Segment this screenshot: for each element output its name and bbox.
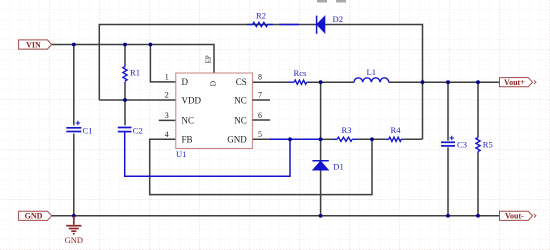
svg-text:NC: NC [234,95,247,105]
svg-text:3: 3 [165,111,169,120]
junction J14 [446,214,450,218]
svg-text:D: D [208,80,217,86]
junction J10 [319,137,323,141]
svg-text:R4: R4 [391,125,402,135]
svg-text:D2: D2 [333,14,344,24]
resistor R3 [333,125,358,142]
svg-text:GND: GND [25,212,43,221]
U1 pin numbers left [165,73,169,140]
svg-text:8: 8 [258,73,262,82]
svg-text:2: 2 [165,91,169,100]
wire R1 to VDD node [124,84,126,125]
junction J7 [446,80,450,84]
wire D1 node to R3 [322,138,333,140]
svg-text:1: 1 [165,73,169,82]
svg-text:Rcs: Rcs [294,68,308,78]
screen artifact marks [317,0,346,3]
wire R3 to R4 node [357,138,385,140]
svg-text:C2: C2 [133,126,143,136]
svg-text:EP: EP [206,55,213,63]
U1 pin numbers right [258,73,262,140]
junction J1 [72,43,76,47]
port GND [19,211,52,221]
U1 pin names left [182,77,202,144]
svg-text:NC: NC [182,116,195,126]
wire R5 vertical [477,82,479,216]
svg-text:6: 6 [258,111,262,120]
svg-text:GND: GND [65,235,83,245]
junction J11 [370,137,374,141]
wire pin 3 stub [159,119,176,121]
wire blue GND pin segment [269,138,322,140]
wire VDD riser and top rail to Vout corner [99,25,422,140]
wire bottom ground rail [52,215,500,217]
svg-text:U1: U1 [176,149,187,159]
svg-text:Vout-: Vout- [505,212,524,221]
svg-text:NC: NC [234,116,247,126]
svg-text:D1: D1 [333,162,344,172]
wire C1 branch vertical [73,45,75,126]
wire VDD pin 2 [99,99,176,101]
wire D1 vertical [320,82,322,216]
wire GND pin 5 stub [252,138,268,140]
svg-text:FB: FB [182,135,193,145]
wire switch node to L1 [309,81,355,83]
junction J3 [149,43,153,47]
svg-text:L1: L1 [367,67,377,77]
wire C1 bottom vertical [73,134,75,216]
port Vout+ [500,78,537,88]
svg-text:R3: R3 [342,125,352,135]
svg-text:C3: C3 [457,139,467,149]
svg-text:7: 7 [258,91,262,100]
svg-text:GND: GND [227,135,247,145]
svg-text:4: 4 [165,130,169,139]
capacitor C1 [66,121,92,136]
U1 pin names right [227,77,247,144]
op-amp U1 body [176,73,253,149]
svg-text:VDD: VDD [182,95,202,105]
wire R4 to Vout corner [404,138,423,140]
junction J13 [319,214,323,218]
junction J4 [123,98,127,102]
port Vout- [500,211,537,221]
wire L1 to Vout+ rail [389,81,500,83]
svg-text:C1: C1 [83,126,93,136]
junction J12 [72,214,76,218]
junction J6 [421,80,425,84]
ground symbol [66,216,81,234]
port VIN [19,40,52,50]
svg-text:VIN: VIN [26,40,41,49]
svg-text:CS: CS [236,77,247,87]
svg-text:R5: R5 [483,139,493,149]
wire FB feedback loop [150,139,372,194]
junction J2 [123,43,127,47]
wire R1/C2 branch vertical [124,45,126,65]
svg-text:Vout+: Vout+ [504,78,525,87]
capacitor C3 [441,136,467,150]
svg-text:D: D [182,77,189,87]
capacitor C2 [118,126,143,136]
wire CS pin 8 to Rcs [252,81,288,83]
junction J15 [476,214,480,218]
wire blue segment before D2 [279,24,299,26]
resistor R1 [123,64,140,84]
wire blue net C2 to GND pin [125,132,290,177]
inductor L1 [354,67,389,82]
resistor R5 [476,136,493,154]
resistor R2 [247,11,273,27]
diode D1 [312,161,343,172]
wire VIN rail to EP [52,45,214,74]
svg-text:R2: R2 [256,11,266,21]
junction J9 [288,137,292,141]
resistor Rcs [289,68,309,84]
wire pin 1 branch [150,45,175,82]
wire C3 vertical [447,82,449,216]
junction J5 [319,80,323,84]
wire pin 7 stub [252,99,270,101]
svg-text:R1: R1 [130,68,140,78]
resistor R4 [385,125,404,142]
wire pin 6 stub [252,119,270,121]
svg-text:5: 5 [258,130,262,139]
junction J8 [476,80,480,84]
diode D2 [317,14,343,34]
